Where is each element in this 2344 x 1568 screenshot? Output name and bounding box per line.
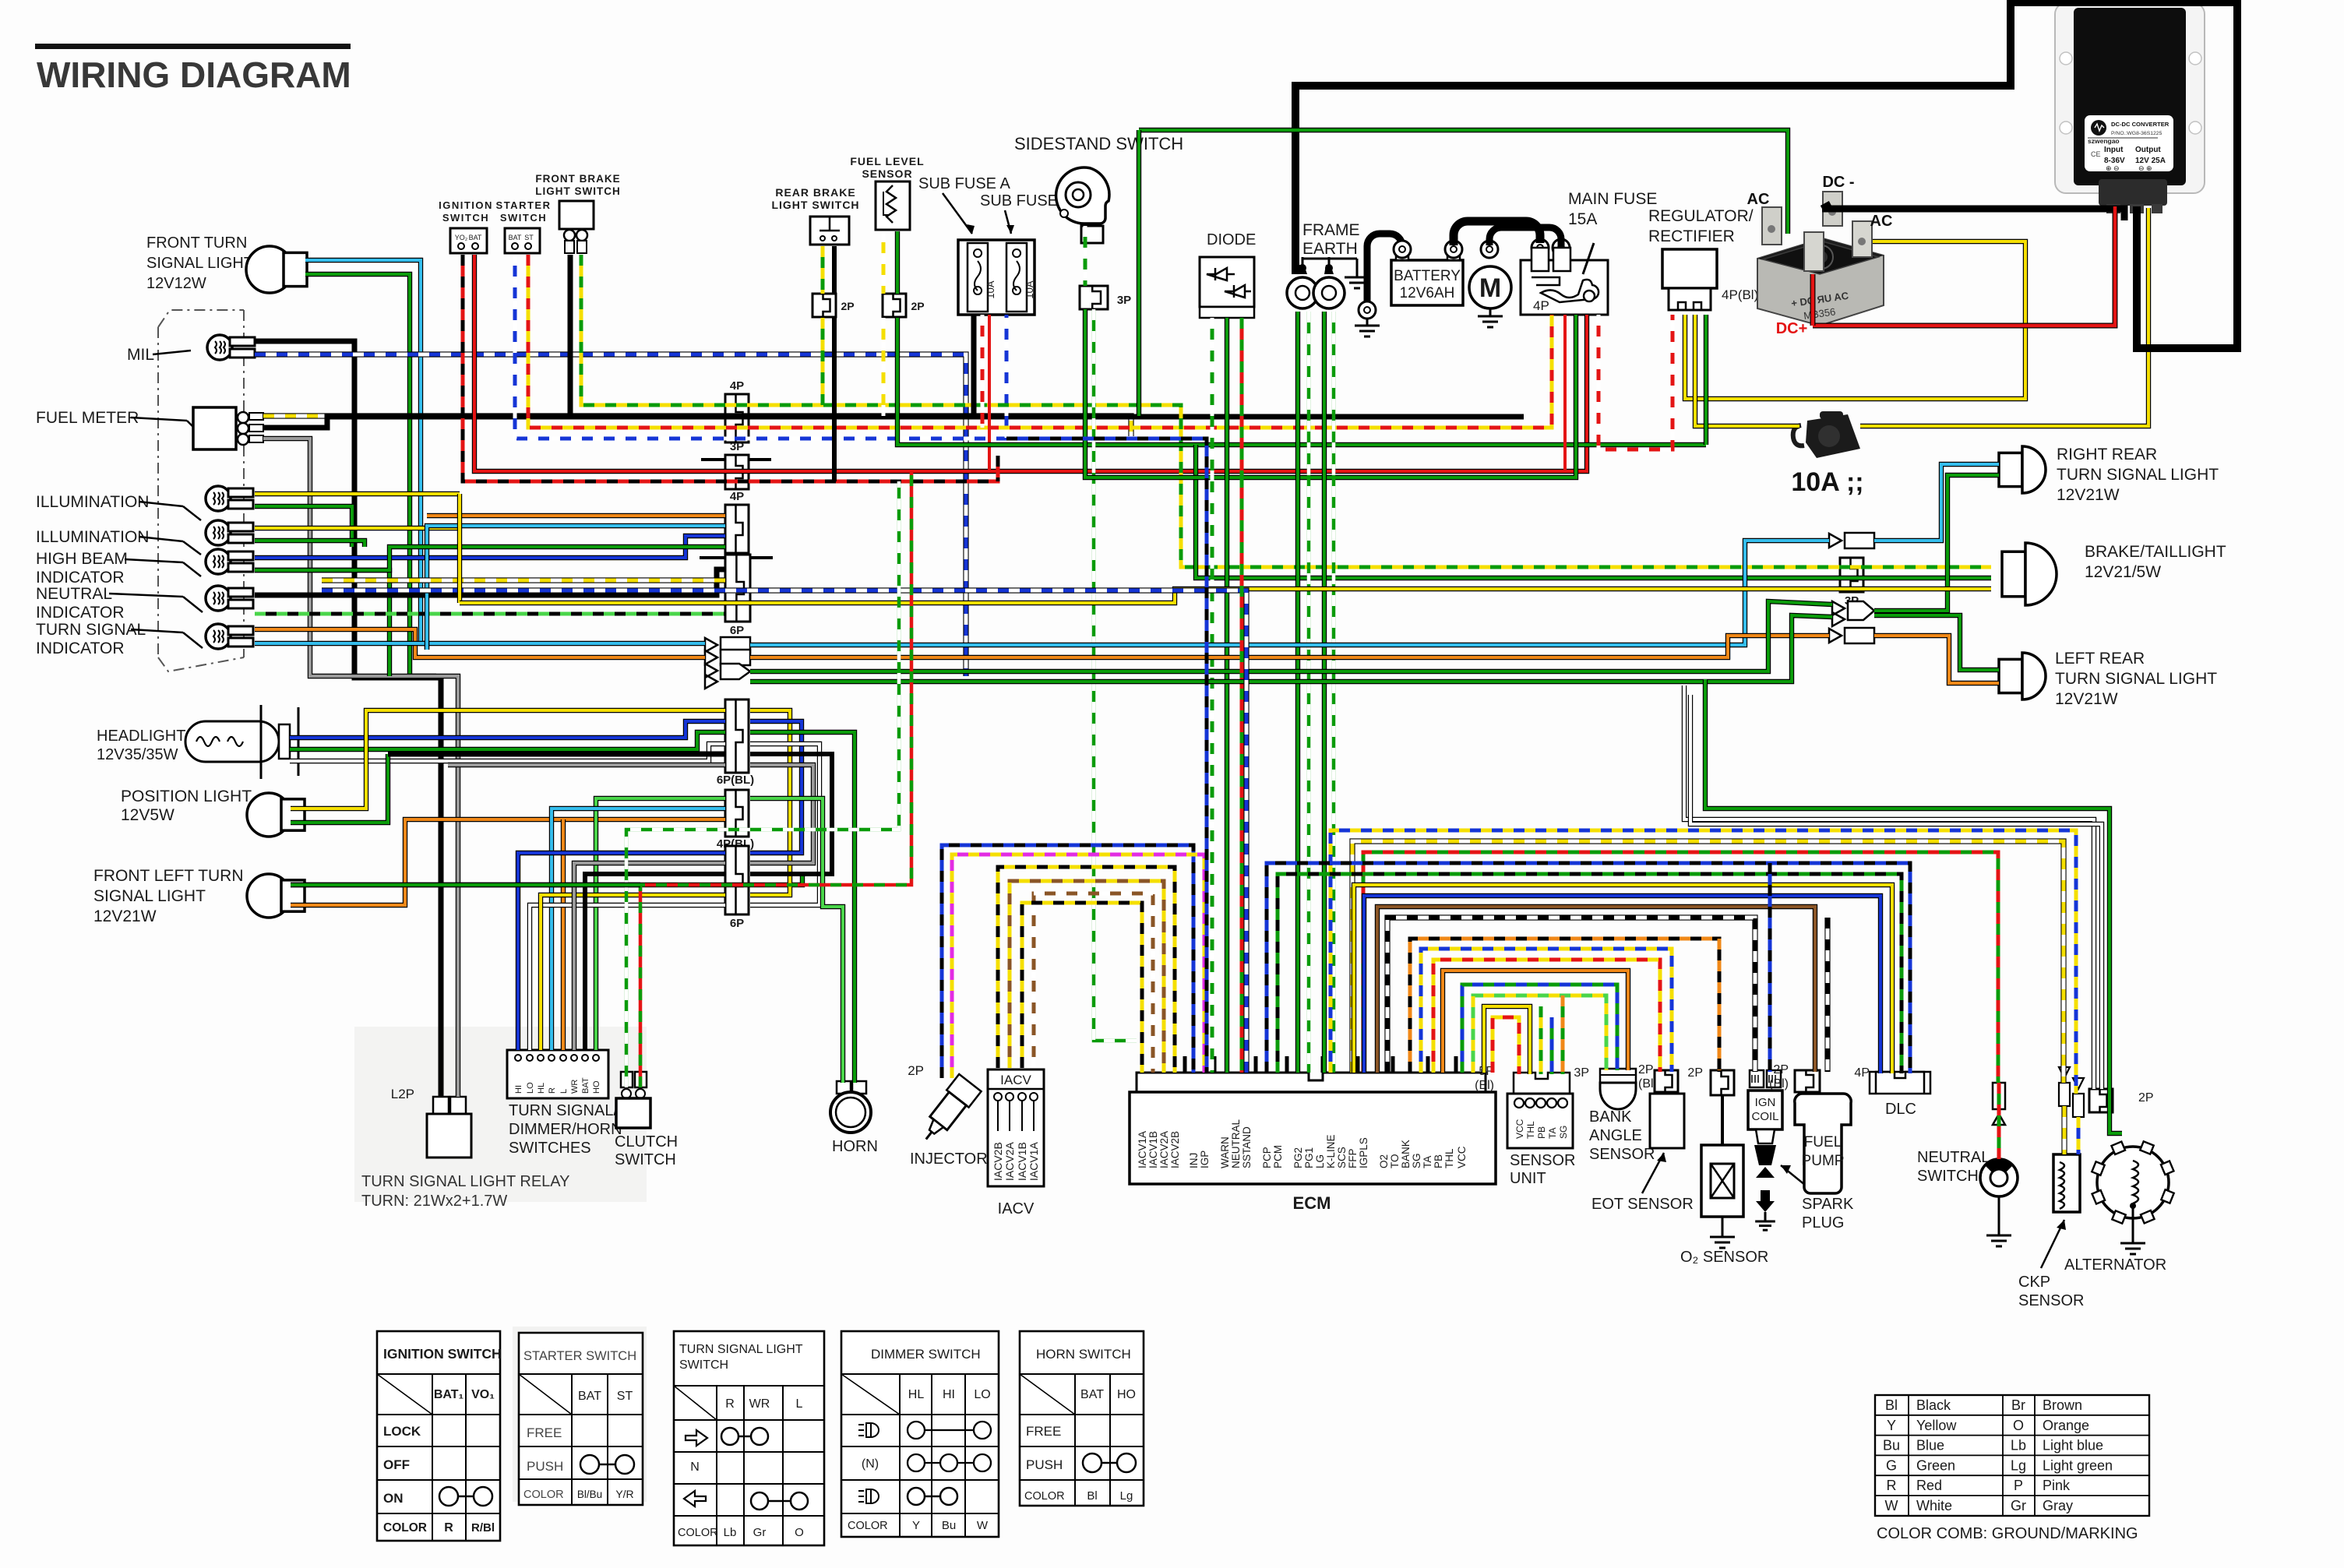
table horn switch (1020, 1331, 1144, 1506)
svg-text:3P: 3P (1117, 294, 1131, 307)
wire Y position light (291, 710, 725, 809)
svg-text:BAT: BAT (578, 1390, 601, 1403)
svg-text:COIL: COIL (1751, 1110, 1778, 1123)
svg-text:HIGH BEAM: HIGH BEAM (36, 550, 128, 568)
wire Gr U-link (750, 765, 813, 863)
svg-text:HORN: HORN (832, 1138, 878, 1155)
svg-text:IACV1A: IACV1A (1027, 1142, 1040, 1181)
wire Y illumination2 (255, 526, 460, 530)
wire Y/R starter-mainfuse (528, 255, 1552, 428)
neutral switch symbol (1980, 1159, 2018, 1228)
wire G frame earth a (1295, 312, 1300, 1073)
svg-text:W: W (1885, 1498, 1898, 1513)
svg-text:IGP: IGP (1199, 1150, 1211, 1168)
wire Bu/Y CKP drop (2077, 1117, 2081, 1154)
svg-text:White: White (1916, 1498, 1952, 1513)
wire Bu U-link (750, 721, 802, 853)
MIL indicator bulb (207, 335, 255, 360)
position light lamp (247, 793, 305, 837)
svg-text:DC+: DC+ (1776, 320, 1808, 337)
svg-text:FREE: FREE (1026, 1424, 1061, 1439)
svg-text:R: R (444, 1521, 453, 1535)
svg-text:(Bl): (Bl) (1475, 1079, 1494, 1092)
wire sensor row y1264 (1462, 985, 1617, 1073)
svg-text:Bu: Bu (1883, 1438, 1900, 1453)
wire G/Y rear brake lower (821, 318, 825, 405)
svg-text:POSITION LIGHT: POSITION LIGHT (121, 788, 252, 805)
svg-text:HL: HL (537, 1083, 546, 1094)
ground (1986, 1228, 2011, 1246)
svg-text:INDICATOR: INDICATOR (36, 569, 125, 587)
wire G position light (291, 754, 388, 823)
svg-text:12V35/35W: 12V35/35W (97, 746, 178, 763)
2P connector rear brake (812, 294, 836, 317)
svg-text:IGPLS: IGPLS (1358, 1137, 1369, 1168)
svg-text:BAT: BAT (1080, 1388, 1104, 1401)
wire R/W mainfuse-regulator U (1599, 315, 1673, 449)
svg-text:DIMMER SWITCH: DIMMER SWITCH (871, 1347, 981, 1362)
wire P/Y injector IGP (952, 854, 1204, 1078)
wire G headlight (290, 732, 725, 749)
svg-text:12V21W: 12V21W (93, 907, 157, 925)
wire W/Bl fuel pump2 (1824, 918, 1830, 1072)
svg-text:HI: HI (514, 1085, 523, 1094)
svg-text:W: W (977, 1519, 989, 1532)
wire G frame earth b (1322, 312, 1327, 1073)
regulator rectifier (1662, 249, 1717, 310)
turn signal dimmer horn switches connector (507, 1050, 608, 1098)
wire G top bus drop (1137, 130, 1141, 416)
svg-text:O: O (2013, 1418, 2024, 1433)
wire Y regulator fuse (1695, 315, 1799, 426)
6P(BL) connector E (725, 699, 749, 773)
wire O left rear entry (1874, 636, 1999, 683)
wire G illumination2b (255, 541, 365, 547)
svg-text:Red: Red (1916, 1478, 1942, 1493)
10A fuse holder (1793, 411, 1860, 458)
wire R/G clutch (640, 471, 911, 1087)
svg-text:COLOR COMB: GROUND/MARKING: COLOR COMB: GROUND/MARKING (1877, 1525, 2138, 1542)
wire Lb right rear entry (1874, 464, 1999, 541)
svg-text:PG2: PG2 (1292, 1147, 1304, 1168)
svg-text:HO: HO (1117, 1388, 1136, 1401)
svg-text:DLC: DLC (1885, 1101, 1916, 1118)
svg-text:ILLUMINATION: ILLUMINATION (36, 528, 149, 546)
brake taillight lamp (2002, 543, 2057, 605)
wire W switch riser LO (530, 905, 725, 1050)
svg-text:VO₁: VO₁ (471, 1388, 495, 1401)
fuel pump (1795, 1094, 1851, 1193)
svg-text:INJECTOR: INJECTOR (910, 1150, 988, 1168)
wire Y bus to taillight (750, 589, 1991, 603)
svg-text:HORN SWITCH: HORN SWITCH (1036, 1347, 1131, 1362)
IGN coil connectors (1750, 1070, 1781, 1087)
wire Br/Y IACV2A (1010, 881, 1164, 1073)
table turn signal light switch (674, 1331, 824, 1545)
wire Bl front brake (568, 255, 573, 417)
wire Bl subfuseA (971, 315, 977, 417)
wire sensor row y1150 (1364, 896, 1880, 1073)
wire R/W subfuseA (981, 315, 985, 428)
svg-text:RECTIFIER: RECTIFIER (1648, 227, 1735, 245)
svg-text:12V12W: 12V12W (146, 275, 206, 292)
svg-text:LO: LO (974, 1388, 990, 1401)
svg-text:4P: 4P (1533, 298, 1549, 313)
svg-text:WR: WR (749, 1397, 770, 1411)
bullet cyan right (1829, 533, 1874, 548)
table dimmer switch (841, 1331, 999, 1537)
ECM (1130, 1073, 1496, 1184)
leader EOT (1642, 1153, 1664, 1193)
svg-text:6P: 6P (730, 917, 744, 930)
svg-text:O₂ SENSOR: O₂ SENSOR (1680, 1249, 1768, 1266)
sensor unit (1507, 1094, 1573, 1148)
svg-text:10A ;;: 10A ;; (1791, 467, 1863, 497)
3P connector sidestand (1080, 286, 1108, 309)
wire G regulator drop (1704, 315, 1708, 445)
svg-text:Gr: Gr (753, 1526, 767, 1539)
svg-text:IACV: IACV (998, 1200, 1035, 1217)
svg-text:SENSOR: SENSOR (862, 167, 912, 180)
wire Y U-link (750, 710, 790, 895)
4P connector A (725, 394, 749, 442)
svg-text:BAT: BAT (469, 234, 482, 241)
sub fuse box (958, 240, 1035, 315)
wire R DC+ stub (1810, 274, 1816, 326)
ground (1355, 318, 1380, 337)
wire G/Bu 5P (1550, 1017, 1554, 1074)
svg-text:MIL: MIL (127, 346, 154, 364)
wire O turn ind (255, 629, 705, 657)
svg-text:12V6AH: 12V6AH (1400, 285, 1455, 301)
ground (1478, 308, 1503, 327)
wire Bu headlight hi (290, 721, 725, 738)
wire Bl headlight bus (388, 752, 725, 757)
wire G/W frame earth a2 (1307, 312, 1311, 1073)
svg-text:IACV2B: IACV2B (992, 1142, 1004, 1181)
bank angle sensor (1600, 1069, 1636, 1109)
svg-text:Lb: Lb (724, 1526, 737, 1539)
wire Bu/Bl injector INJ (942, 845, 1193, 1078)
wire G/W diode ECM (1211, 318, 1214, 1073)
6P connector D (725, 555, 750, 622)
EOT sensor body (1650, 1094, 1684, 1148)
svg-text:Gray: Gray (2043, 1498, 2073, 1513)
wire G left rear entry (1874, 615, 1999, 670)
svg-text:TURN SIGNAL: TURN SIGNAL (36, 621, 146, 639)
svg-text:FREE: FREE (527, 1425, 562, 1440)
svg-text:HO: HO (592, 1080, 601, 1094)
wire R/Bl subfuseB join (996, 456, 1000, 481)
svg-text:CE: CE (2091, 150, 2101, 158)
ignition switch (450, 228, 487, 253)
svg-text:SG: SG (1411, 1153, 1422, 1168)
svg-text:TA: TA (1422, 1156, 1433, 1168)
svg-text:Lg: Lg (1120, 1489, 1133, 1503)
O2 sensor (1701, 1095, 1743, 1229)
table ignition switch (377, 1331, 500, 1541)
neutral indicator bulb (206, 586, 253, 611)
svg-text:MAIN FUSE: MAIN FUSE (1568, 190, 1657, 208)
ECM pin stub (1356, 1056, 1360, 1073)
wire O row662 (427, 513, 725, 518)
front turn signal light lamp (246, 246, 307, 293)
ground (1755, 1215, 1775, 1230)
svg-text:Bu: Bu (942, 1519, 956, 1532)
svg-text:L: L (559, 1089, 569, 1094)
instrument cluster boundary (158, 310, 244, 327)
IACV (988, 1069, 1044, 1186)
svg-text:IGN: IGN (1755, 1096, 1776, 1109)
svg-text:⊖ ⊕: ⊖ ⊕ (2138, 164, 2152, 172)
fuel meter (193, 407, 263, 449)
svg-text:IACV: IACV (1000, 1073, 1031, 1087)
wire Lg horn (750, 798, 843, 1083)
svg-text:2P: 2P (908, 1063, 924, 1078)
wire Gr 6PBL (448, 763, 725, 767)
svg-text:IGNITION: IGNITION (439, 199, 493, 211)
svg-text:Green: Green (1916, 1457, 1955, 1473)
svg-text:ALTERNATOR: ALTERNATOR (2064, 1256, 2166, 1274)
svg-text:TURN SIGNAL LIGHT: TURN SIGNAL LIGHT (679, 1343, 803, 1356)
svg-text:VCC: VCC (1514, 1119, 1525, 1139)
svg-text:4P: 4P (1854, 1066, 1870, 1080)
svg-text:Bl: Bl (1885, 1397, 1898, 1413)
svg-text:10A: 10A (1024, 280, 1035, 298)
2P connector alternator (2089, 1089, 2113, 1112)
battery negative cable (1367, 234, 1402, 310)
ECM pin stub (1454, 1056, 1458, 1073)
wire Y illumination1 (255, 492, 460, 496)
svg-text:STARTER: STARTER (496, 199, 552, 211)
wire W/Y row745 (322, 577, 725, 583)
3P connector B (725, 455, 749, 489)
svg-text:12V21/5W: 12V21/5W (2085, 563, 2161, 581)
wire sensor row y1292 (1484, 1006, 1530, 1074)
svg-text:BAT: BAT (509, 234, 522, 241)
svg-text:(Bl): (Bl) (1769, 1077, 1789, 1091)
wire Y/W fuel level lower (882, 318, 886, 416)
svg-text:TO: TO (1389, 1154, 1401, 1168)
svg-text:PUSH: PUSH (1026, 1457, 1063, 1472)
svg-text:PB: PB (1536, 1126, 1547, 1139)
svg-text:TURN SIGNAL/: TURN SIGNAL/ (509, 1102, 618, 1119)
svg-text:(N): (N) (862, 1457, 879, 1471)
bridge rectifier MB356 (1757, 192, 1884, 326)
wire Bu switch riser HI (518, 853, 725, 1050)
svg-text:SENSOR: SENSOR (1589, 1146, 1655, 1163)
svg-text:Light green: Light green (2043, 1457, 2113, 1473)
svg-text:NEUTRAL: NEUTRAL (36, 585, 112, 603)
wire R mainfuse2 (1563, 315, 1567, 471)
svg-text:SWITCH: SWITCH (1917, 1168, 1979, 1185)
svg-text:AC: AC (1747, 191, 1770, 208)
wire G bus fork right a (750, 601, 1832, 671)
ground (1710, 1229, 1735, 1248)
svg-text:BRAKE/TAILLIGHT: BRAKE/TAILLIGHT (2085, 543, 2226, 561)
wire G/W sidestand upper (1084, 226, 1087, 286)
svg-text:Brown: Brown (2043, 1397, 2082, 1413)
wire G right rear entry (1874, 475, 1999, 611)
svg-text:ON: ON (383, 1491, 404, 1506)
4P connector C (725, 505, 749, 553)
alternator (2097, 1147, 2169, 1235)
svg-text:LEFT REAR: LEFT REAR (2055, 650, 2145, 668)
svg-text:CKP: CKP (2018, 1274, 2050, 1291)
wire W alternator pair b (1690, 695, 2102, 1089)
CKP bullets (2059, 1067, 2084, 1117)
svg-text:FRONT BRAKE: FRONT BRAKE (535, 173, 620, 185)
wire sensor row y1306 (1493, 1017, 1519, 1074)
svg-text:FRONT LEFT TURN: FRONT LEFT TURN (93, 867, 244, 885)
2P(Bl) connector fuel pump (1795, 1070, 1820, 1092)
svg-text:2P: 2P (1638, 1063, 1654, 1076)
svg-text:O: O (795, 1526, 804, 1539)
svg-text:2P: 2P (2138, 1091, 2154, 1105)
wire G horn (750, 732, 855, 1083)
svg-text:Orange: Orange (2043, 1418, 2089, 1433)
svg-text:L: L (796, 1397, 803, 1411)
svg-text:IACV1B: IACV1B (1147, 1131, 1159, 1168)
battery cable terminals (1359, 239, 1570, 319)
svg-text:BATTERY: BATTERY (1394, 268, 1461, 284)
bullet orange right (1829, 628, 1874, 643)
svg-text:HL: HL (908, 1388, 925, 1401)
thick black DC- to converter (1822, 206, 2124, 220)
svg-text:4P: 4P (730, 379, 744, 393)
svg-text:Pink: Pink (2043, 1478, 2071, 1493)
svg-text:2P: 2P (1773, 1063, 1789, 1076)
injector (915, 1074, 982, 1148)
svg-text:DC -: DC - (1822, 174, 1854, 191)
wire sensor row y1178 (1387, 918, 1755, 1073)
ground (2120, 1235, 2145, 1254)
wire Br/W IACV1B (1034, 893, 1153, 1073)
wire Bl switch riser BAT (585, 874, 725, 1050)
svg-text:TURN SIGNAL LIGHT: TURN SIGNAL LIGHT (2055, 670, 2217, 688)
ECM pin stub (1391, 1056, 1395, 1073)
wire sensor row y1080 (1352, 841, 2064, 1083)
svg-text:INDICATOR: INDICATOR (36, 604, 125, 622)
svg-text:Lb: Lb (2011, 1438, 2026, 1453)
svg-text:SWITCH: SWITCH (679, 1358, 728, 1372)
fuel level sensor (876, 181, 910, 230)
svg-text:R: R (1887, 1478, 1897, 1493)
svg-text:RIGHT REAR: RIGHT REAR (2057, 446, 2157, 463)
wire O bus to left rear (750, 636, 1829, 657)
svg-text:OFF: OFF (383, 1457, 410, 1472)
svg-text:IACV2B: IACV2B (1169, 1131, 1181, 1168)
svg-text:BAT₁: BAT₁ (434, 1388, 464, 1401)
wire G diode ECM (1225, 318, 1229, 1073)
6P connector G (725, 846, 749, 914)
svg-text:Bl/Bu: Bl/Bu (577, 1489, 602, 1500)
wire G high beam rtn (255, 570, 389, 676)
turn signal light relay (427, 1097, 471, 1158)
left rear turn signal lamp (1999, 653, 2046, 699)
bullet connector orange (705, 650, 750, 665)
svg-text:TURN SIGNAL LIGHT: TURN SIGNAL LIGHT (2057, 466, 2219, 484)
svg-text:G: G (1886, 1457, 1897, 1473)
svg-text:2P: 2P (911, 300, 924, 312)
svg-text:YO₂: YO₂ (455, 234, 468, 241)
svg-text:IACV1B: IACV1B (1016, 1142, 1028, 1181)
svg-text:R/Bl: R/Bl (471, 1521, 495, 1535)
wire G/W frame earth b2 (1332, 312, 1336, 1073)
front brake light switch (559, 201, 594, 253)
wire Gr fuel meter to relay (263, 439, 458, 1097)
2P(Bl) connector EOT (1655, 1070, 1678, 1092)
right rear turn signal lamp (1999, 446, 2046, 493)
svg-text:Y/R: Y/R (615, 1488, 633, 1500)
3P connector tail (1840, 558, 1863, 592)
wire W U-link (750, 744, 820, 905)
wire R/G diode (1240, 318, 1244, 1073)
svg-text:Br: Br (2011, 1397, 2025, 1413)
wire R subfuseB (988, 315, 991, 471)
frame earth terminals (1287, 257, 1357, 308)
svg-text:COLOR: COLOR (383, 1521, 427, 1535)
leader spark plug (1781, 1165, 1814, 1192)
svg-text:LG: LG (1314, 1154, 1326, 1168)
wire Bu/W starter (515, 255, 1006, 439)
svg-text:PUMP: PUMP (1802, 1153, 1845, 1169)
DC-DC converter module (2055, 3, 2205, 213)
svg-text:WARN: WARN (1219, 1136, 1231, 1168)
svg-text:4P(Bl): 4P(Bl) (1722, 287, 1758, 302)
wire W headlight lo (290, 744, 725, 761)
wire sensor row y1164 (1377, 907, 1815, 1073)
wire R ignition-mainfuse (474, 255, 1587, 471)
svg-text:K-LINE: K-LINE (1325, 1134, 1337, 1168)
wire G front left lamp (291, 883, 640, 887)
wire G/Y rear brake upper (821, 246, 825, 294)
svg-text:P/NO.:WG8-36S1225: P/NO.:WG8-36S1225 (2111, 131, 2162, 136)
svg-text:12V21W: 12V21W (2055, 690, 2118, 708)
wire sensor row y1136 (1354, 885, 1892, 1073)
svg-text:6P(BL): 6P(BL) (717, 773, 754, 787)
svg-text:Gr: Gr (2011, 1498, 2026, 1513)
wire sensor row y1094 (1363, 852, 1998, 1083)
wire G illumination1b (255, 506, 352, 547)
bullet connector cyan (705, 637, 750, 653)
svg-text:FRAME: FRAME (1302, 221, 1360, 239)
wire G sidestand mainfuse row (1085, 309, 1576, 477)
svg-text:WIRING DIAGRAM: WIRING DIAGRAM (37, 55, 351, 95)
svg-text:LIGHT SWITCH: LIGHT SWITCH (771, 199, 859, 211)
wire Lg switch riser HO (596, 798, 725, 1050)
svg-text:6P: 6P (730, 624, 744, 637)
starter motor cable (1489, 227, 1561, 247)
ECM pin stub (1213, 1056, 1217, 1073)
wire sensor row y1122 (1278, 874, 1902, 1073)
wire G fuel-level regulator bus (897, 318, 1706, 445)
wire Bu high beam (255, 536, 725, 558)
svg-text:NEUTRAL: NEUTRAL (1917, 1149, 1990, 1166)
wire G front left turn (291, 874, 802, 885)
wire Bu/W MIL (255, 354, 966, 676)
svg-text:R: R (548, 1087, 557, 1094)
wire sensor row y1278 (1473, 995, 1606, 1073)
svg-text:SENSOR: SENSOR (1510, 1152, 1575, 1169)
wire Lb row675 (427, 526, 725, 650)
svg-text:VCC: VCC (1456, 1146, 1468, 1168)
svg-text:WR: WR (570, 1080, 580, 1094)
wire Lb turn ind (255, 643, 427, 650)
svg-text:IACV1A: IACV1A (1137, 1131, 1148, 1168)
svg-text:N: N (690, 1461, 700, 1474)
svg-text:Yellow: Yellow (1916, 1418, 1957, 1433)
